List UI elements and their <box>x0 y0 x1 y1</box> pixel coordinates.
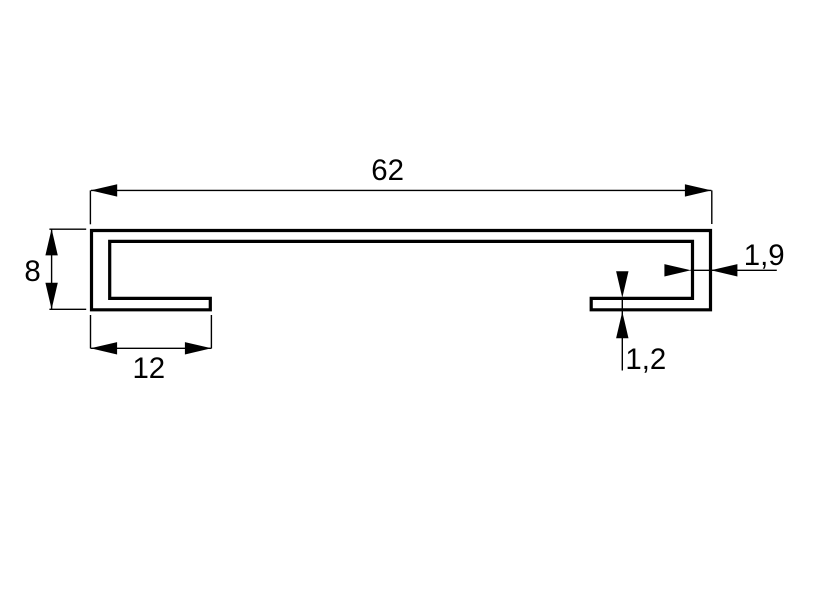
arrowhead 62 right <box>685 184 712 196</box>
arrowhead 62 left <box>91 184 118 196</box>
arrowhead 12 right <box>185 342 212 354</box>
extension line 12 left <box>90 315 92 348</box>
extension line 62 left <box>89 190 91 224</box>
arrowhead 1,9 inner (points right) <box>664 264 691 276</box>
extension line 12 right <box>210 315 212 348</box>
dimension line 12 <box>91 347 212 349</box>
leader line 1,9 <box>691 269 777 271</box>
svg-text:1,2: 1,2 <box>625 343 666 376</box>
leader line 1,2 <box>621 298 623 371</box>
svg-text:1,9: 1,9 <box>744 239 785 272</box>
extension line 8 top <box>49 228 86 230</box>
arrowhead 12 left <box>91 342 118 354</box>
svg-text:62: 62 <box>371 154 404 187</box>
arrowhead 1,9 outer (points left) <box>711 264 738 276</box>
dimension line 62 <box>91 189 711 191</box>
arrowhead 8 top <box>45 229 57 256</box>
dimension line 8 <box>51 229 53 309</box>
extension line 62 right <box>711 190 713 224</box>
profile outline (C-channel cross-section) <box>92 231 711 310</box>
svg-text:8: 8 <box>24 255 40 288</box>
svg-text:12: 12 <box>132 352 165 385</box>
arrowhead 1,2 upper (points down) <box>616 271 628 298</box>
arrowhead 1,2 lower (points up) <box>616 312 628 339</box>
extension line 8 bottom <box>49 308 86 310</box>
arrowhead 8 bottom <box>45 283 57 310</box>
